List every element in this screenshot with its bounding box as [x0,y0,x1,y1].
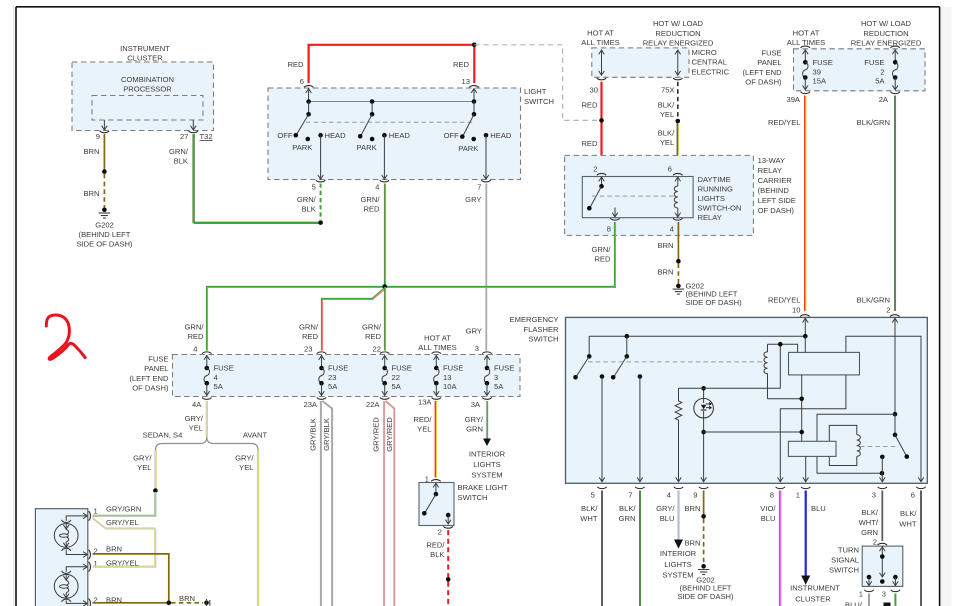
svg-text:OF DASH): OF DASH) [758,206,795,215]
light switch box [268,87,554,180]
wire GRN/RED distribution bus [185,287,614,351]
svg-text:BRN: BRN [684,504,700,513]
svg-text:23: 23 [328,373,336,382]
svg-text:5: 5 [591,490,595,499]
svg-text:(BEHIND LEFT: (BEHIND LEFT [79,230,131,239]
wire GRY from pin 7 to fuse 3 [465,184,486,351]
svg-text:6: 6 [668,165,672,174]
junction dot GRN/RED bus [382,284,387,289]
svg-text:HOT AT: HOT AT [587,29,614,38]
wire BRN dashed to ground [83,174,104,208]
turn signal switch box [829,546,903,587]
svg-text:LIGHTS: LIGHTS [473,460,500,469]
junction dot RED / dashed jumper [599,118,604,123]
svg-text:HEAD: HEAD [490,131,512,140]
wire GRN/BLK from pin 27 to splice [169,134,321,224]
svg-text:YEL: YEL [660,110,674,119]
svg-text:PANEL: PANEL [144,364,168,373]
svg-text:27: 27 [180,132,188,141]
svg-text:7: 7 [477,183,481,192]
splice dot BLK/YEL [676,119,681,124]
svg-text:15A: 15A [813,76,827,85]
wire GRY/YEL avant branch [235,450,258,606]
wire GRN/RED branch to fuse 23 [299,288,385,350]
svg-text:SIDE OF DASH): SIDE OF DASH) [686,298,743,307]
relay1 top connection from pin10 [804,336,806,352]
lamp 1 pin 2 [89,547,98,560]
svg-text:RED: RED [581,139,598,148]
svg-text:AVANT: AVANT [243,431,268,440]
arrow to interior lights system [469,439,506,480]
svg-text:RELAY ENERGIZED: RELAY ENERGIZED [851,38,922,47]
pin2 branch to pin 3 net [817,412,897,476]
wire GRN/RED from pin 8 [592,222,616,288]
svg-text:PROCESSOR: PROCESSOR [123,85,172,94]
svg-text:GRN/: GRN/ [185,323,205,332]
pin 6 of light switch [300,77,314,102]
svg-text:LIGHTS: LIGHTS [664,560,691,569]
svg-text:GRY/: GRY/ [656,504,675,513]
instrument cluster box [72,44,214,131]
svg-text:4A: 4A [192,400,202,409]
svg-text:22A: 22A [366,400,380,409]
svg-text:HOT AT: HOT AT [424,333,451,342]
svg-text:RELAY: RELAY [698,213,722,222]
svg-text:5: 5 [312,183,316,192]
svg-text:GRN: GRN [861,528,878,537]
svg-text:FUSE: FUSE [443,363,463,372]
svg-text:BLK/: BLK/ [658,128,675,137]
svg-text:10: 10 [792,306,800,315]
pin 8 of DRL relay [607,218,620,233]
LED indicator [694,388,714,482]
wire GRN/BLK dashed from pin 5 [297,184,321,221]
wire RED/YEL from fuse 13A to brake light switch [413,401,436,478]
svg-text:TURN: TURN [838,546,859,555]
svg-text:RED: RED [287,60,304,69]
svg-text:RED: RED [363,205,380,214]
pin 6 arrow [918,477,924,481]
svg-text:5A: 5A [875,76,885,85]
gang dashed link flasher [588,361,764,363]
tail lamp assembly box [35,509,87,606]
svg-text:GRY: GRY [466,327,482,336]
svg-text:MICRO: MICRO [692,48,717,57]
svg-text:1: 1 [859,590,863,599]
svg-text:9: 9 [693,490,697,499]
svg-text:BRN: BRN [179,594,195,603]
svg-text:EMERGENCY: EMERGENCY [510,315,559,324]
svg-text:(LEFT END: (LEFT END [129,374,169,383]
svg-text:2: 2 [593,165,597,174]
svg-text:ELECTRIC: ELECTRIC [692,67,730,76]
pin 6 of DRL relay [668,165,683,176]
svg-text:4: 4 [667,490,671,499]
fuse 39 15A [786,46,832,104]
fuse panel (fuse 39 / fuse 2) box [742,19,925,91]
wire BLK/YEL dashed from pin 75X [658,82,678,120]
svg-text:GRY/YEL: GRY/YEL [106,518,139,527]
splice dot BRN lamps [167,601,172,606]
page edge gray line [13,6,15,606]
svg-text:RED/YEL: RED/YEL [768,118,801,127]
terminal label T32 [200,132,213,141]
svg-text:LIGHTS: LIGHTS [698,194,725,203]
svg-text:RUNNING: RUNNING [698,185,734,194]
svg-text:BLK/: BLK/ [862,508,879,517]
contact to pin 7 [637,374,643,482]
flasher bottom pins [591,487,926,500]
svg-text:LEFT SIDE: LEFT SIDE [758,196,796,205]
svg-text:GRN/: GRN/ [297,195,317,204]
svg-text:2A: 2A [879,95,889,104]
output line pin 4 inside light switch [375,135,389,191]
flasher coil 1 [764,342,802,399]
svg-text:FUSE: FUSE [214,363,234,372]
switch section A of light switch [277,112,346,152]
contact to pin 5 [599,374,605,482]
svg-text:3A: 3A [471,400,481,409]
wire from turn signal pin 1 [868,594,870,606]
svg-text:BLK: BLK [301,205,315,214]
svg-text:VIO/: VIO/ [760,504,776,513]
svg-text:BLK/: BLK/ [900,509,917,518]
svg-text:GRY: GRY [465,195,481,204]
svg-text:BLK/: BLK/ [581,504,598,513]
pin 2 of brake light switch [438,526,453,536]
svg-text:75X: 75X [661,85,675,94]
relay 2 contact box [788,441,836,482]
svg-text:5A: 5A [392,382,402,391]
wire BLK/GRN from fuse 2A to flasher pin 2 [857,96,896,312]
flasher switch section 1 [573,336,591,379]
splice dot BRN [676,259,681,264]
svg-text:HOT AT: HOT AT [793,29,820,38]
svg-text:23A: 23A [303,400,317,409]
switch section C of light switch [444,112,512,153]
lamp 2 bulb [54,564,87,606]
splice dot BRN flasher [701,514,706,519]
svg-text:(BEHIND: (BEHIND [758,186,790,195]
svg-text:13A: 13A [418,397,432,406]
svg-text:2: 2 [886,306,890,315]
brake switch output contact [445,513,451,525]
svg-text:PARK: PARK [458,144,478,153]
emergency flasher switch box [510,315,928,483]
svg-text:GRY/GRN: GRY/GRN [106,504,141,513]
pin 30 of MCE [590,78,607,94]
svg-text:6: 6 [911,490,915,499]
wire BRN from pin 4 [657,222,678,261]
brake light switch box [419,483,508,526]
relay coil pin6-pin4 [674,177,680,217]
wire BLK/WHT from pin 6 [899,491,921,606]
daytime running lights switch-on relay inner box [582,175,741,222]
svg-text:GRY/RED: GRY/RED [372,417,381,452]
combination processor inner box [92,96,203,121]
svg-text:INSTRUMENT: INSTRUMENT [120,44,170,53]
partial arrow at bottom edge [884,603,891,606]
svg-text:GRY/: GRY/ [133,453,152,462]
flasher top feed bus [589,334,807,339]
svg-text:GRY/BLK: GRY/BLK [322,418,331,451]
svg-text:3: 3 [882,590,886,599]
relay 1 contact box [789,352,860,375]
LED top node [701,386,706,391]
svg-text:GRN/: GRN/ [299,323,319,332]
fuse 4 5A [192,345,234,409]
svg-text:BRN: BRN [83,147,99,156]
svg-text:GRN/: GRN/ [169,147,189,156]
svg-text:GRY/BLK: GRY/BLK [309,418,318,451]
svg-text:HEAD: HEAD [325,131,347,140]
svg-text:30: 30 [590,85,598,94]
svg-text:4: 4 [670,225,674,234]
svg-text:REDUCTION: REDUCTION [863,29,908,38]
ground G202 (instrument cluster) [76,208,133,249]
svg-text:(LEFT END: (LEFT END [742,68,782,77]
svg-text:FLASHER: FLASHER [523,325,559,334]
wire resistor/LED top to coil branch [679,344,781,388]
relay1 bottom right to pin 8 [778,375,846,482]
wire GRN from turn signal pin 3 [894,594,896,606]
svg-text:8: 8 [607,225,611,234]
fuse 22 5A [366,345,412,409]
relay switch arm [587,184,604,211]
svg-text:BRN: BRN [106,545,122,554]
svg-text:SIDE OF DASH): SIDE OF DASH) [76,240,133,249]
lamp 2 pin 2 [89,595,98,606]
gang dashed link light switch [306,121,474,123]
svg-text:BLK/: BLK/ [658,100,675,109]
svg-text:YEL: YEL [189,424,203,433]
svg-text:OFF: OFF [444,131,460,140]
svg-text:INSTRUMENT: INSTRUMENT [790,584,840,593]
svg-text:RED/: RED/ [413,415,432,424]
svg-text:BLU: BLU [761,514,776,523]
wire BRN dashed to ground (lamps) [171,594,203,603]
svg-text:PANEL: PANEL [757,58,781,67]
fuse 3 5A [471,344,515,409]
hot at all times label (fuse 13) [418,333,456,352]
svg-text:CLUSTER: CLUSTER [127,54,163,63]
flasher coil 2 loop [829,425,860,465]
arrow to instrument cluster [790,576,840,604]
svg-text:YEL: YEL [417,424,431,433]
wire RED feed to light switch [287,45,474,83]
pins 1 and 3 of turn signal switch [859,590,900,599]
svg-text:FUSE: FUSE [864,58,884,67]
svg-text:YEL: YEL [137,463,151,472]
splice dot GRY/YEL to GRY/GRN [153,488,158,493]
wire BRN from pin 9 [83,134,104,172]
svg-text:1: 1 [796,490,800,499]
svg-text:1: 1 [94,506,98,515]
wire BRN from pin 9 of flasher [684,491,703,517]
svg-text:2: 2 [438,528,442,537]
svg-text:22: 22 [392,373,400,382]
fuse 23 5A [303,345,348,409]
svg-text:DAYTIME: DAYTIME [698,175,731,184]
lamp 1 pin 1 [89,506,98,520]
wire GRY/YEL sedan branch [133,450,156,491]
svg-text:RED: RED [594,255,611,264]
svg-text:39A: 39A [786,95,800,104]
svg-text:T32: T32 [200,132,213,141]
svg-text:SWITCH-ON: SWITCH-ON [698,204,742,213]
relay1 bottom left vertical [799,375,804,441]
split bracket SEDAN/AVANT [143,431,268,450]
svg-text:23: 23 [304,345,312,354]
feed arrow pin 75X inside MCE [675,50,681,76]
svg-text:FUSE: FUSE [761,48,781,57]
svg-text:4: 4 [375,183,379,192]
ground G202 (flasher) [677,564,734,601]
svg-text:BLK/: BLK/ [619,504,636,513]
svg-text:1: 1 [425,475,429,484]
svg-text:13: 13 [462,77,470,86]
svg-text:SWITCH: SWITCH [829,566,859,575]
svg-text:RED: RED [365,332,382,341]
pin 2 of DRL relay [593,165,606,187]
svg-text:INTERIOR: INTERIOR [469,449,506,458]
feed arrow pin 30 inside MCE [599,50,605,76]
pin 27 of instrument cluster [180,120,198,141]
svg-text:COMBINATION: COMBINATION [121,75,174,84]
flasher switch section 2 [611,336,629,379]
svg-text:GRY/YEL: GRY/YEL [106,558,139,567]
svg-text:2: 2 [873,538,877,547]
svg-text:13: 13 [443,373,451,382]
svg-text:GRN/: GRN/ [361,195,381,204]
svg-text:REDUCTION: REDUCTION [655,29,700,38]
svg-text:RED: RED [302,332,319,341]
wire GRY/YEL jumper lamp1 pin1 to lamp2 pin1 [93,518,156,568]
svg-text:6: 6 [300,77,304,86]
ground (lamps, partially cut) [204,599,210,606]
svg-text:GRY/RED: GRY/RED [385,417,394,452]
micro central electric box [581,19,729,77]
svg-text:SYSTEM: SYSTEM [471,470,502,479]
svg-text:BLU/: BLU/ [845,601,863,606]
red marker scribble 2 [46,315,85,359]
svg-text:RED: RED [453,60,470,69]
svg-text:22: 22 [373,345,381,354]
svg-text:SWITCH: SWITCH [458,493,488,502]
svg-text:9: 9 [96,132,100,141]
svg-text:CENTRAL: CENTRAL [692,58,727,67]
lamp 1 bulb [54,513,87,557]
svg-text:HOT W/ LOAD: HOT W/ LOAD [653,19,704,28]
pin 2 of turn signal switch [873,538,887,584]
wire GRY/GRN sedan splice to lamp1 pin1 [93,492,156,516]
svg-text:BRN: BRN [106,596,122,605]
svg-text:WHT: WHT [580,514,598,523]
svg-text:FUSE: FUSE [148,354,168,363]
svg-text:BLK/GRN: BLK/GRN [857,295,890,304]
wire BRN dashed to ground [657,263,678,284]
svg-text:2: 2 [880,68,884,77]
svg-text:OF DASH): OF DASH) [132,384,169,393]
resistor [675,388,682,482]
svg-text:BLU: BLU [811,504,826,513]
13-way relay carrier outer box [565,155,796,235]
wire GRN/RED from pin 4 to junction [361,184,386,287]
svg-text:GRY/: GRY/ [235,453,254,462]
svg-text:3: 3 [872,490,876,499]
turn signal contacts [866,575,898,586]
wire RED/YEL from fuse 39A to flasher pin 10 [768,96,806,312]
wire GRY/BLK pair from fuse 23A [309,401,333,606]
svg-text:PARK: PARK [292,143,312,152]
splice node GRN/BLK [318,220,323,225]
svg-text:RED: RED [581,100,598,109]
wire BLU from pin 1 [806,491,826,576]
svg-text:BRN: BRN [657,268,673,277]
svg-text:ALL TIMES: ALL TIMES [581,38,619,47]
svg-text:BRN: BRN [83,189,99,198]
lamp 2 pin 1 [89,559,98,572]
fuse 2 5A [864,46,900,104]
wire GRY/RED pair from fuse 22A [372,401,395,606]
svg-text:5A: 5A [214,382,224,391]
svg-text:8: 8 [770,490,774,499]
svg-text:HOT W/ LOAD: HOT W/ LOAD [861,19,912,28]
relay1 feed to pin 6 line [846,336,921,482]
svg-text:GRY/: GRY/ [465,415,484,424]
svg-text:RELAY ENERGIZED: RELAY ENERGIZED [643,38,714,47]
svg-text:13-WAY: 13-WAY [758,156,785,165]
svg-text:GRN/: GRN/ [362,323,382,332]
svg-text:FUSE: FUSE [392,363,412,372]
pin 1 of brake light switch [425,475,441,495]
svg-text:G202: G202 [95,221,114,230]
output line pin 7 inside light switch [477,135,491,191]
pin 2 of flasher [886,306,899,415]
pin 10 of flasher [792,306,810,337]
output arrow to pin 8 [612,208,618,218]
svg-text:BRN: BRN [657,241,673,250]
wire GRN/RED to fuse 22 [362,287,385,351]
svg-text:WHT: WHT [899,519,917,528]
flasher relay 2 switch [893,414,909,459]
svg-text:SWITCH: SWITCH [524,97,554,106]
gang dashed link DRL relay [592,195,676,197]
arrow to interior lights system (flasher) [660,540,697,580]
wire VIO/BLU from pin 8 [760,491,781,606]
svg-text:GRN: GRN [466,424,483,433]
wire BLK/YEL from splice to pin 6 of relay [658,123,679,171]
wire GRY/GRN from fuse 3A to interior lights [465,401,488,439]
svg-text:PARK: PARK [357,143,377,152]
wire LED bottom to relay1 vertical [704,431,802,433]
svg-text:OF DASH): OF DASH) [745,78,782,87]
svg-text:SIGNAL: SIGNAL [831,556,859,565]
svg-text:FUSE: FUSE [328,363,348,372]
svg-text:BLK/GRN: BLK/GRN [857,118,890,127]
svg-text:39: 39 [813,68,821,77]
wire GRY/BLU from pin 4 [656,491,678,540]
svg-text:BLK: BLK [174,156,188,165]
svg-text:RED: RED [187,332,204,341]
svg-text:WHT/: WHT/ [859,518,879,527]
svg-text:4: 4 [193,345,197,354]
svg-text:ALL TIMES: ALL TIMES [418,343,456,352]
svg-text:SIDE OF DASH): SIDE OF DASH) [677,592,734,601]
internal bus of light switch [306,99,476,114]
wire BLK/WHT/GRN from pin 3 [859,491,883,542]
svg-text:CLUSTER: CLUSTER [795,595,831,604]
